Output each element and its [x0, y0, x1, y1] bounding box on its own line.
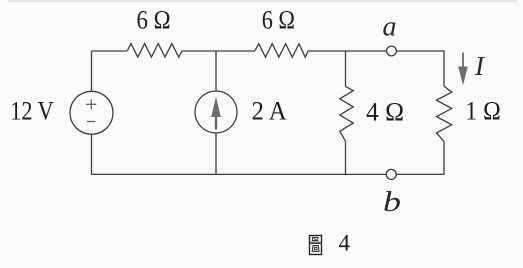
- wire: top-left horizontal segment: [92, 50, 128, 52]
- wire: top segment from R2 to node a: [308, 50, 386, 52]
- current arrow I (gray, pointing down): [458, 53, 468, 86]
- resistor R3 1-ohm vertical zigzag: [437, 86, 452, 141]
- svg-text:6 Ω: 6 Ω: [262, 6, 295, 35]
- wire: 4-ohm branch upper vertical: [345, 51, 347, 86]
- voltage source plus sign: [86, 99, 96, 109]
- node a terminal circle: [387, 46, 397, 56]
- svg-text:4 Ω: 4 Ω: [366, 97, 404, 126]
- svg-text:12 V: 12 V: [10, 96, 54, 125]
- svg-text:a: a: [383, 12, 397, 43]
- wire: top segment between R1 and R2: [182, 50, 255, 52]
- wire: bottom horizontal segment left of node b: [92, 173, 387, 175]
- caption: Chinese character TU (figure) drawn as strokes: [310, 236, 322, 255]
- svg-text:6 Ω: 6 Ω: [137, 6, 171, 35]
- wire: left side upper vertical: [91, 51, 93, 91]
- svg-text:2 A: 2 A: [252, 97, 287, 126]
- scan artifact: faint top edge line: [8, 0, 517, 2]
- voltage source minus sign: [87, 121, 95, 123]
- node b terminal circle: [386, 169, 396, 179]
- voltage source V1 circle: [70, 91, 113, 134]
- wire: top-right segment from node a to right corner: [396, 50, 444, 52]
- svg-text:b: b: [383, 187, 401, 218]
- current source I1 circle: [195, 91, 237, 133]
- current source arrow (gray, pointing up): [211, 97, 221, 130]
- svg-text:1 Ω: 1 Ω: [465, 97, 501, 126]
- resistor R2 6-ohm zigzag: [255, 44, 308, 58]
- wire: right side lower vertical: [443, 141, 445, 174]
- wire: bottom-right segment from node b to right corner: [396, 173, 444, 175]
- svg-text:I: I: [474, 51, 486, 81]
- svg-text:4: 4: [339, 231, 351, 256]
- wire: right side upper vertical: [443, 51, 445, 86]
- wire: current source branch upper vertical: [215, 51, 217, 91]
- wire: left side lower vertical: [91, 134, 93, 174]
- wire: current source branch lower vertical: [215, 133, 217, 174]
- resistor R1 6-ohm zigzag: [127, 44, 182, 58]
- wire: 4-ohm branch lower vertical: [345, 141, 347, 174]
- resistor R4 4-ohm vertical zigzag: [340, 86, 353, 141]
